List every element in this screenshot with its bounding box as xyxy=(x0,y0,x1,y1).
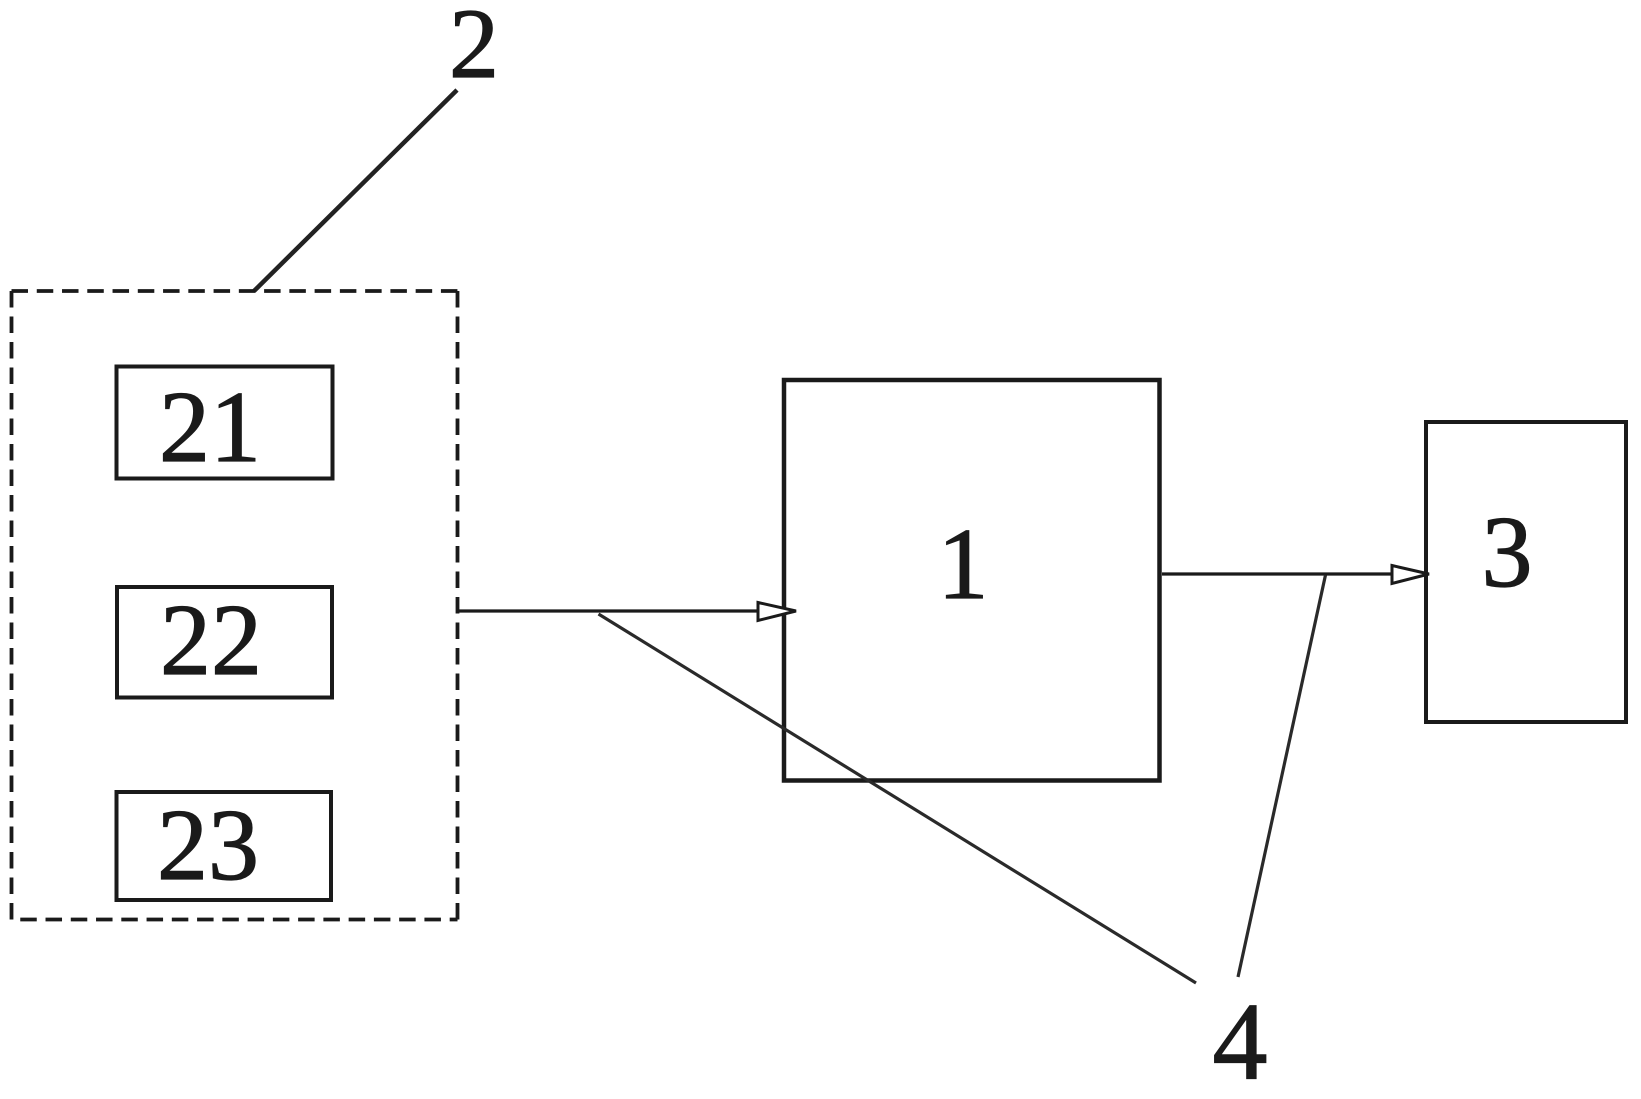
block 3 xyxy=(1426,422,1626,722)
dashed module box 2 : top edge xyxy=(12,289,458,293)
wire from block 1 to block 3 xyxy=(1162,572,1392,575)
dashed module box 2 : left edge xyxy=(10,291,14,920)
leader line 4 (left, from wire to label 4) xyxy=(599,614,1197,983)
open arrowhead into block 3 xyxy=(1392,566,1429,584)
svg-text:21: 21 xyxy=(159,371,261,484)
block 1 xyxy=(784,380,1160,781)
svg-text:2: 2 xyxy=(449,0,499,99)
wire from dashed box to block 1 xyxy=(457,609,758,612)
svg-text:1: 1 xyxy=(938,508,989,621)
block 23 xyxy=(117,792,332,900)
block 22 xyxy=(117,587,332,698)
svg-text:4: 4 xyxy=(1213,981,1268,1099)
block 21 xyxy=(117,367,333,479)
dashed module box 2 : right edge xyxy=(456,291,460,920)
open arrowhead into block 1 xyxy=(758,603,796,621)
svg-text:23: 23 xyxy=(157,789,259,902)
svg-text:22: 22 xyxy=(160,584,262,697)
leader line from label 2 to dashed box xyxy=(254,90,457,291)
dashed module box 2 : bottom edge xyxy=(12,918,458,922)
svg-text:3: 3 xyxy=(1482,496,1533,609)
leader line 4 (right, from wire to label 4) xyxy=(1238,575,1326,977)
